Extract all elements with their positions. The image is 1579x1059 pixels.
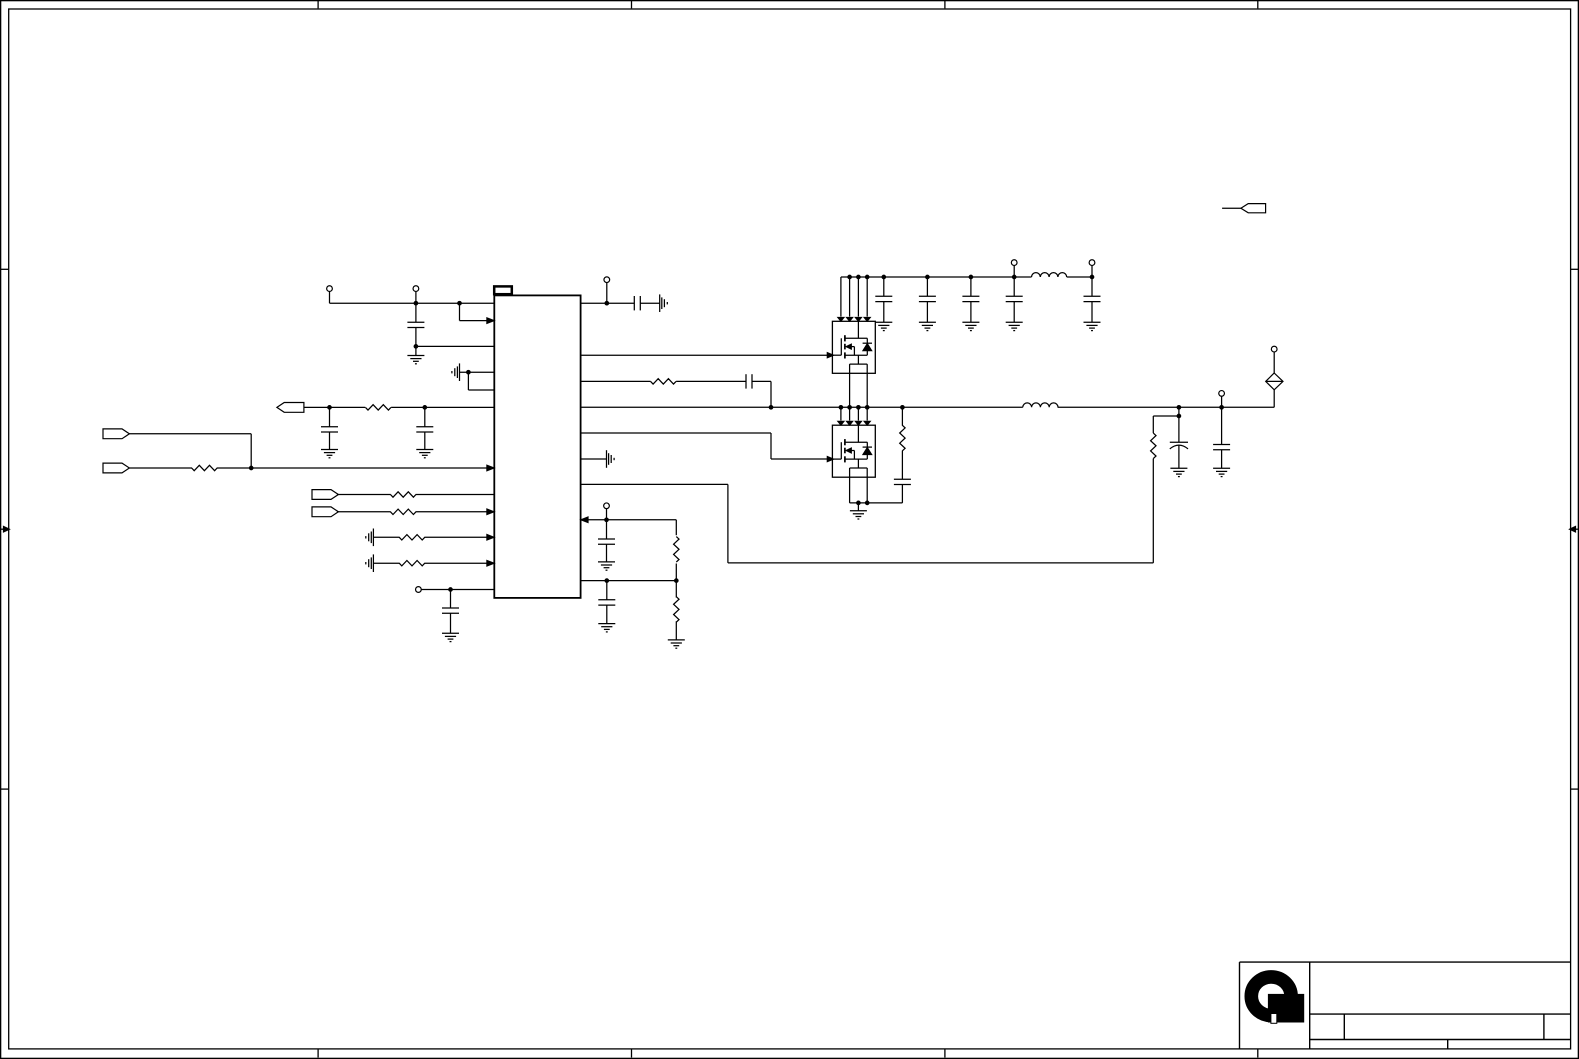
capacitor C11 xyxy=(883,277,885,296)
arrow into Q1 drain 4 xyxy=(864,317,870,321)
capacitor C12 xyxy=(926,277,928,296)
title block outline xyxy=(1240,962,1571,1049)
capacitor C15 xyxy=(1091,277,1093,296)
wire xyxy=(415,291,417,303)
wire into IC pin 11 xyxy=(424,562,494,564)
wire from J2 xyxy=(129,434,251,468)
capacitor C5 xyxy=(634,296,640,310)
capacitor C3 xyxy=(424,407,426,426)
wire xyxy=(329,291,331,303)
node junction xyxy=(857,405,861,409)
node junction xyxy=(458,301,462,305)
capacitor C4 xyxy=(450,590,452,609)
transistor Q1 (high-side) package box xyxy=(832,321,875,373)
left border zone ticks xyxy=(1,269,8,789)
terminal TP6 xyxy=(1011,260,1017,266)
wire feedback node xyxy=(581,519,677,521)
arrow into IC pin 2 xyxy=(487,318,495,324)
ground xyxy=(962,322,979,330)
ground xyxy=(1006,322,1023,330)
IC U1 pin-1 marker tab xyxy=(494,286,512,294)
ground xyxy=(1084,322,1101,330)
node junction xyxy=(1177,414,1181,418)
wire rail drop 4 xyxy=(866,407,868,420)
wire from IC top-right pin xyxy=(581,302,635,304)
arrow into Q1 drain 3 xyxy=(855,317,861,321)
capacitor C10 snubber xyxy=(901,451,903,480)
node junction xyxy=(865,501,869,505)
arrow into IC feedback pin xyxy=(581,517,589,523)
wire bus drop 1 xyxy=(840,277,842,317)
bottom border zone ticks xyxy=(318,1049,1258,1058)
wire xyxy=(337,511,391,513)
node junction xyxy=(839,405,843,409)
node junction xyxy=(882,275,886,279)
node junction xyxy=(848,405,852,409)
terminal TP5 xyxy=(604,503,610,509)
wire Q1 source to rail 1 xyxy=(849,373,851,407)
wire feedback tap xyxy=(1153,415,1179,417)
ground xyxy=(919,322,936,330)
wire rail drop 2 xyxy=(849,407,851,420)
wire xyxy=(373,562,399,564)
wire into IC pin 6 xyxy=(391,406,494,408)
wire Q2 source to ground rail 2 xyxy=(866,477,868,503)
node junction xyxy=(605,301,609,305)
wire into IC pin 12 xyxy=(421,589,494,591)
node junction xyxy=(1090,275,1094,279)
node junction xyxy=(605,579,609,583)
wire into IC pin 3 xyxy=(416,345,494,347)
node junction xyxy=(857,275,861,279)
ground xyxy=(857,503,859,511)
current probe symbol xyxy=(1266,373,1283,390)
connector J6 (flag, points left) xyxy=(1241,204,1266,213)
resistor R8 snubber xyxy=(901,407,903,425)
wire IC stepped to Q2 gate xyxy=(581,433,833,459)
inductor L1 xyxy=(1032,273,1067,277)
resistor R3 xyxy=(390,492,416,497)
resistor R7 xyxy=(651,379,676,384)
arrow into IC pin 9 xyxy=(487,509,495,515)
op-amp controller IC U1 body xyxy=(494,295,580,598)
wire into IC pin 7 xyxy=(217,467,495,469)
signal ground AGND5 xyxy=(607,450,615,468)
capacitor C13 xyxy=(970,277,972,296)
connector J2 (input flag) xyxy=(103,429,129,439)
node junction xyxy=(423,406,427,410)
transistor Q2 (low-side) gate entry arrow xyxy=(827,456,834,461)
wire bus drop 4 xyxy=(866,277,868,317)
terminal TP7 xyxy=(1089,260,1095,266)
node junction xyxy=(769,405,773,409)
node junction xyxy=(605,518,609,522)
resistor R4 xyxy=(390,509,416,514)
signal ground AGND3 xyxy=(366,554,374,572)
transistor Q2 (low-side) internal MOSFET symbol xyxy=(832,425,872,477)
top border zone ticks xyxy=(318,1,1258,8)
node junction xyxy=(467,370,471,374)
wire xyxy=(676,380,746,382)
resistor R1 xyxy=(365,405,391,410)
ground rail wire xyxy=(850,502,903,504)
ground xyxy=(875,322,892,330)
input bus wire xyxy=(841,276,1092,278)
wire IC bottom-right pin xyxy=(581,580,677,582)
terminal TP4 xyxy=(604,277,610,283)
arrow into Q1 drain 1 xyxy=(838,317,844,321)
capacitor C8 xyxy=(606,520,608,539)
terminal TP8 xyxy=(1219,391,1225,397)
wire bus drop 3 xyxy=(857,277,859,317)
right border zone ticks xyxy=(1571,269,1578,789)
ground xyxy=(442,633,459,641)
connector J3 (input flag) xyxy=(103,463,129,473)
switch-node rail wire xyxy=(581,390,1275,408)
wire into IC pin 8 xyxy=(416,494,495,496)
wire from IC pin (comp) xyxy=(581,380,651,382)
transistor Q1 (high-side) gate entry arrow xyxy=(827,353,834,358)
node junction xyxy=(1220,405,1224,409)
ground xyxy=(1170,468,1187,476)
node junction xyxy=(414,301,418,305)
node junction xyxy=(969,275,973,279)
signal ground AGND1 xyxy=(452,363,460,381)
inductor L2 xyxy=(1023,403,1058,407)
wire xyxy=(304,406,365,408)
arrow into Q2 drain 4 xyxy=(864,421,870,425)
wire Q2 source to ground rail 1 xyxy=(849,477,851,503)
ground xyxy=(321,450,338,458)
terminal TP2 xyxy=(413,286,419,292)
arrow into IC pin 11 xyxy=(487,560,495,566)
ground xyxy=(598,624,615,632)
capacitor C2 xyxy=(329,407,331,426)
node junction xyxy=(857,501,861,505)
wire into IC pin 10 xyxy=(424,536,494,538)
wire rail drop 1 xyxy=(840,407,842,420)
wire xyxy=(1091,265,1093,277)
wire xyxy=(337,494,391,496)
wire xyxy=(373,536,399,538)
wire stepped branch to pin 2 xyxy=(460,303,495,320)
node junction xyxy=(449,588,453,592)
node junction xyxy=(901,405,905,409)
left border midpoint arrow marker xyxy=(1,526,10,532)
capacitor C9 xyxy=(606,581,608,600)
terminal TP1 xyxy=(327,286,333,292)
node junction xyxy=(865,405,869,409)
right border midpoint arrow marker xyxy=(1569,526,1578,532)
wire xyxy=(1178,407,1180,442)
transistor Q2 (low-side) package box xyxy=(832,425,875,477)
wire stepped branch to pin 5 xyxy=(468,372,494,390)
wire IC to Q1 gate xyxy=(581,354,833,356)
node junction xyxy=(249,466,253,470)
node junction xyxy=(865,275,869,279)
ground xyxy=(416,450,433,458)
capacitor C7 polarized xyxy=(1170,442,1188,449)
resistor R9 feedback xyxy=(1152,416,1154,433)
transistor Q1 (high-side) internal MOSFET symbol xyxy=(832,321,872,373)
wire pin VIN top xyxy=(330,302,495,304)
node junction xyxy=(1012,275,1016,279)
feedback wire from IC xyxy=(581,459,1154,563)
connector J4 (input flag) xyxy=(312,490,338,500)
resistor R6 xyxy=(399,561,425,566)
wire Q1 source to rail 2 xyxy=(866,373,868,407)
resistor R10 xyxy=(675,520,677,535)
wire IC pin to signal ground xyxy=(581,458,607,460)
arrow into Q2 drain 1 xyxy=(838,421,844,425)
ground xyxy=(415,346,417,355)
wire xyxy=(460,371,495,373)
wire xyxy=(606,509,608,520)
wire xyxy=(606,282,608,303)
wire xyxy=(1221,396,1223,407)
node junction xyxy=(674,579,678,583)
arrow into IC pin 7 xyxy=(487,465,495,471)
node junction xyxy=(926,275,930,279)
wire branch down to SW rail xyxy=(752,381,771,407)
connector J5 (input flag) xyxy=(312,507,338,517)
resistor R2 xyxy=(192,465,218,470)
capacitor C16 xyxy=(1221,407,1223,444)
terminal TP3 xyxy=(416,587,422,593)
wire into IC pin 9 xyxy=(416,511,495,513)
arrow into Q2 drain 2 xyxy=(846,421,852,425)
wire xyxy=(1013,265,1015,277)
wire bus drop 2 xyxy=(849,277,851,317)
terminal TP9 xyxy=(1271,346,1277,352)
ground xyxy=(598,562,615,570)
arrow into IC pin 10 xyxy=(487,534,495,540)
capacitor C6 xyxy=(746,374,752,388)
wire xyxy=(1273,352,1275,373)
node junction xyxy=(328,406,332,410)
node junction xyxy=(1177,405,1181,409)
signal ground AGND4 xyxy=(660,294,668,312)
node junction xyxy=(848,275,852,279)
resistor R5 xyxy=(399,535,425,540)
connector J1 (output flag, points left) xyxy=(277,403,304,413)
node junction xyxy=(414,345,418,349)
arrow into Q1 drain 2 xyxy=(846,317,852,321)
company logo xyxy=(1251,977,1303,1023)
capacitor C14 xyxy=(1013,277,1015,296)
signal ground AGND2 xyxy=(366,529,374,547)
wire rail drop 3 xyxy=(857,407,859,420)
wire stub xyxy=(1222,207,1241,209)
ground xyxy=(1213,468,1230,476)
arrow into Q2 drain 3 xyxy=(855,421,861,425)
wire from J3 xyxy=(129,467,192,469)
ground xyxy=(668,640,685,648)
wire xyxy=(640,302,659,304)
capacitor C1 xyxy=(415,303,417,322)
resistor R11 xyxy=(675,581,677,598)
